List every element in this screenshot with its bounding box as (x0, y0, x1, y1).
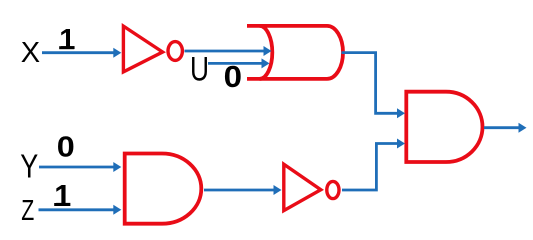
svg-text:1: 1 (59, 24, 75, 56)
svg-text:U: U (190, 51, 209, 89)
svg-text:Y: Y (20, 149, 38, 186)
svg-text:0: 0 (224, 60, 242, 94)
svg-text:0: 0 (57, 132, 75, 164)
svg-text:Z: Z (21, 195, 34, 227)
svg-text:1: 1 (54, 179, 71, 213)
svg-text:X: X (21, 37, 40, 69)
